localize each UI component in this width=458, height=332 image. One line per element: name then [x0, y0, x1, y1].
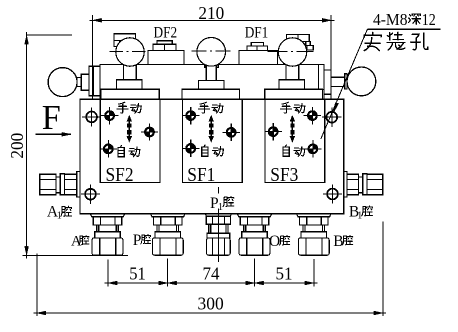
mounting hole bottom-left	[81, 185, 100, 204]
port fitting O (vertical)	[237, 214, 272, 256]
valve knob 1 flag	[114, 34, 135, 47]
svg-text:SF3: SF3	[270, 164, 298, 186]
solenoid block DF2	[148, 41, 184, 65]
mounting hole top-right	[322, 108, 341, 127]
panel1 auto text 自动	[118, 146, 124, 157]
knob 3 centerline	[268, 50, 314, 52]
svg-text:P: P	[133, 232, 142, 249]
leader line to mounting hole	[321, 29, 368, 139]
side fitting A1 (horizontal, left)	[40, 172, 80, 197]
valve knob 2	[197, 38, 226, 67]
svg-text:DF1: DF1	[245, 24, 269, 41]
svg-text:210: 210	[198, 3, 224, 23]
svg-text:1: 1	[218, 202, 223, 213]
main body	[80, 99, 344, 214]
mounting hole top-left	[82, 107, 101, 126]
valve panel SF1	[183, 99, 243, 182]
panel3 auto text 自动	[283, 145, 289, 156]
svg-text:B: B	[333, 233, 343, 250]
valve knob 3 flag	[287, 34, 314, 50]
panel3 bolt holes	[304, 107, 321, 124]
valve panel SF2	[100, 99, 160, 182]
svg-text:51: 51	[129, 264, 146, 284]
right handle ball	[347, 67, 376, 96]
panel2 manual text 手动	[199, 102, 210, 113]
port fitting A (vertical)	[90, 214, 125, 256]
svg-text:SF2: SF2	[106, 164, 134, 186]
valve slab 2	[182, 89, 240, 99]
left handle bracket	[77, 66, 100, 96]
svg-text:SF1: SF1	[187, 164, 215, 186]
knob 2 centerline	[191, 50, 233, 52]
svg-text:200: 200	[7, 133, 27, 159]
svg-text:74: 74	[203, 264, 220, 284]
right handle bracket	[324, 70, 347, 94]
dimension 200	[23, 32, 129, 258]
dimension chain 51 74 51	[105, 259, 318, 287]
valve stem 3	[279, 61, 305, 89]
svg-text:12: 12	[422, 10, 436, 29]
note text 安装孔	[364, 32, 381, 50]
panel3 manual text 手动	[281, 102, 292, 113]
panel2 mode arrow	[209, 115, 214, 143]
panel1 bolt holes	[101, 107, 118, 124]
port P1 centerline	[217, 187, 219, 262]
port fitting P (vertical)	[151, 214, 186, 256]
panel1 mode arrow	[127, 115, 132, 143]
valve slab 3	[265, 89, 323, 99]
port fitting P1 (vertical, narrow)	[205, 214, 231, 256]
panel2 auto text 自动	[202, 145, 208, 156]
panel3 mode arrow	[290, 115, 295, 143]
band right end cap line	[318, 64, 324, 89]
solenoid block DF1	[239, 42, 278, 64]
side fitting B1 (horizontal, right)	[344, 172, 383, 197]
svg-text:O: O	[269, 233, 280, 250]
valve knob 3	[278, 38, 306, 66]
valve knob 1	[116, 38, 144, 66]
top mounting band	[100, 64, 324, 99]
svg-text:51: 51	[276, 264, 293, 284]
valve panel SF3	[265, 99, 325, 182]
panel1 manual text 手动	[117, 102, 128, 113]
valve stem 1	[117, 61, 143, 89]
svg-text:F: F	[42, 98, 61, 137]
svg-text:DF2: DF2	[154, 24, 178, 41]
knob 1 centerline	[109, 50, 147, 52]
svg-text:4-M8: 4-M8	[373, 10, 408, 29]
mounting hole bottom-right	[323, 184, 342, 203]
svg-text:300: 300	[198, 294, 224, 314]
dimension 300	[34, 222, 387, 317]
port fitting B (vertical)	[297, 214, 332, 256]
valve slab 1	[101, 89, 160, 99]
left handle ball	[48, 68, 77, 97]
valve stem 2	[198, 63, 224, 89]
dimension 210	[90, 15, 335, 99]
panel2 bolt holes	[182, 107, 199, 124]
